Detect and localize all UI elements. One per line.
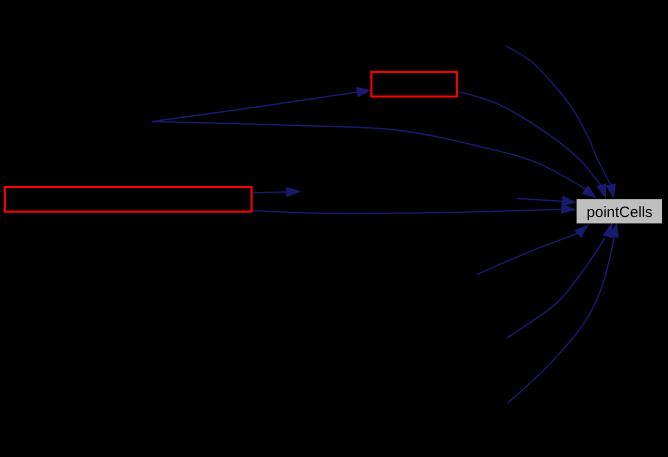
A5 arrowhead E5 into pointCells top [596,183,606,199]
node: red box R2 (truncated caller, label hidden) [371,72,457,97]
A6 arrowhead E6 into pointCells left [561,196,577,206]
edge E7 caller-c -> pointCells [506,46,611,186]
A1 arrowhead into red box R2 [356,87,372,97]
edge E8 caller-d -> pointCells [477,233,579,275]
A4 arrowhead E4 into pointCells left [561,204,576,214]
edge E3 red box R1 -> caller-b [253,191,289,194]
node: red box R1 (truncated caller, label hidden) [5,187,252,212]
svg-text:pointCells: pointCells [587,204,653,221]
edge E4 red box R1 -> pointCells [253,209,564,213]
A3 arrowhead into caller-b [286,187,301,197]
edge E2 caller-a -> pointCells [152,122,587,190]
A8 arrowhead E8 into pointCells bottom [574,224,589,238]
A9 arrowhead E9 into pointCells bottom [603,222,613,238]
edge E10 caller-f -> pointCells [508,236,615,403]
A7 arrowhead E7 into pointCells top [606,183,616,199]
A10 arrowhead E10 into pointCells bottom [609,222,619,238]
node: pointCells (current function) [577,199,662,223]
edge E9 caller-e -> pointCells [506,238,604,338]
edge E5 red box R2 -> pointCells [458,91,602,186]
A2 arrowhead E2 into pointCells top [582,185,597,198]
edge E6 caller-b -> pointCells [517,198,564,201]
edge E1 caller-a -> red box R2 [152,92,359,122]
